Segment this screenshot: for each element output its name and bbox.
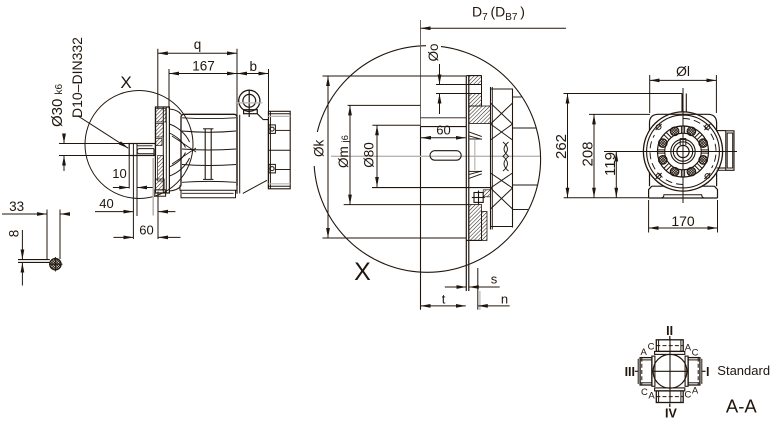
bell housing top curve (169, 109, 181, 114)
FRONT VIEW GROUP (553, 63, 737, 233)
svg-text:10: 10 (112, 166, 126, 181)
center line detail (331, 155, 540, 157)
svg-text:s: s (491, 271, 498, 286)
bell inner curves (169, 124, 189, 142)
extension lines Ok (323, 75, 467, 77)
dimension 40 (95, 211, 133, 213)
shaft groove lines (132, 144, 134, 240)
top box plate (655, 351, 685, 354)
extension bottom line (564, 197, 649, 199)
spoke lines (658, 126, 709, 177)
body side left lower (649, 173, 651, 187)
fan shroud caps (491, 88, 513, 90)
svg-text:D10–DIN332: D10–DIN332 (69, 37, 85, 118)
SIDE VIEW GROUP (49, 37, 290, 239)
eyebolt base (244, 110, 258, 114)
crosshair (652, 370, 687, 372)
flange inner circle (647, 115, 720, 188)
detail circle boundary (85, 91, 193, 199)
svg-text:C: C (648, 342, 655, 353)
top box (656, 340, 683, 352)
flange hub hatch lower (158, 156, 164, 182)
flange face extension (157, 192, 159, 240)
svg-text:t: t (442, 291, 446, 306)
body corner top-left (650, 114, 671, 130)
eyebolt (239, 90, 260, 111)
body bottom stubs (652, 185, 664, 187)
bolt pitch arcs (683, 118, 716, 168)
centerline horizontal (604, 151, 737, 153)
bell cross lines (172, 136, 196, 152)
key slab lines (18, 259, 50, 261)
grub screw (474, 193, 483, 203)
dimension O30 arrows (63, 134, 65, 144)
coupling ring outer (658, 126, 709, 177)
extension lines O30 (59, 143, 129, 145)
svg-text:8: 8 (7, 230, 22, 238)
svg-text:X: X (120, 73, 131, 92)
svg-text:170: 170 (671, 213, 695, 229)
fan blades zigzag top (491, 103, 513, 124)
coupling ring inner (665, 133, 702, 170)
bore keyway slot (680, 139, 686, 145)
svg-text:60: 60 (139, 223, 153, 238)
flange holes (656, 124, 711, 179)
centerline vertical (682, 88, 684, 203)
svg-text:I: I (706, 365, 709, 379)
svg-text:Standard: Standard (717, 363, 770, 378)
right foot (714, 186, 717, 198)
dimension q (158, 52, 197, 54)
extension line q left (157, 49, 159, 109)
body corner top-right (696, 114, 717, 130)
flange top cap (466, 75, 481, 77)
leader D10 (78, 116, 128, 148)
flange plate inner lines (162, 107, 164, 193)
hub circles (671, 139, 695, 163)
svg-text:60: 60 (436, 122, 450, 137)
svg-text:A: A (648, 391, 655, 402)
flange mid wedge bottom (469, 174, 482, 179)
extension line 167 left (168, 69, 170, 109)
svg-text:Øl: Øl (676, 63, 690, 79)
flange hatch top (469, 76, 482, 85)
rear housing top (257, 114, 268, 120)
extension lines Om (348, 104, 421, 106)
body top middle segment (670, 113, 695, 115)
dimension 167 (169, 73, 203, 75)
svg-text:IV: IV (665, 407, 677, 421)
keyway slot (430, 151, 461, 161)
extension line q/167 right (236, 49, 238, 115)
detail circle boundary (314, 46, 541, 273)
left box plate (652, 356, 655, 386)
body mid rib (204, 129, 206, 180)
svg-text:167: 167 (192, 59, 215, 74)
svg-text:n: n (501, 291, 508, 306)
svg-text:X: X (354, 258, 371, 286)
fan shroud ribs right (513, 96, 522, 98)
left box (640, 358, 652, 385)
bore bottom line (372, 187, 491, 189)
bottom box plate (655, 388, 685, 391)
fan shroud front (490, 87, 492, 230)
svg-text:III: III (625, 365, 635, 379)
svg-text:Øo: Øo (426, 43, 441, 61)
flange step line (421, 117, 467, 119)
DETAIL X VIEW GROUP (312, 4, 567, 311)
right box (688, 358, 700, 385)
svg-text:40: 40 (99, 196, 113, 211)
extension 262 top (564, 93, 683, 95)
white gap for Ok text (313, 132, 327, 166)
shaft section circle hatched (50, 259, 61, 270)
rear housing bottom (243, 180, 267, 193)
white gap for Oo text (426, 41, 441, 65)
dimension 10 (113, 187, 129, 189)
terminal box side (268, 111, 290, 189)
flange foot (155, 190, 166, 196)
AC labels (641, 342, 699, 402)
extension 208 top (589, 113, 650, 115)
svg-text:33: 33 (9, 199, 24, 214)
phantom line flange (152, 158, 154, 216)
flange outer circle (643, 112, 722, 191)
shaft end extension (128, 156, 130, 189)
body lower band (180, 186, 237, 198)
dimension 60 (113, 236, 133, 238)
KEY DETAIL GROUP (2, 199, 70, 286)
foot notches (661, 195, 705, 198)
extension O80 top (372, 124, 420, 126)
body shell lines (182, 117, 236, 120)
output shaft (129, 144, 155, 156)
motor body outline (181, 114, 237, 186)
bell housing bottom curve (169, 186, 181, 191)
body side right lower (716, 173, 718, 187)
eyebolt stub (681, 94, 683, 113)
motor rear face (236, 114, 238, 194)
center circle (653, 354, 687, 388)
svg-text:C: C (684, 390, 691, 401)
svg-text:II: II (666, 324, 673, 338)
terminal box right (717, 130, 726, 132)
base line (649, 197, 718, 199)
terminal box screws (269, 125, 276, 133)
svg-text:A: A (692, 386, 699, 397)
svg-text:A: A (641, 347, 648, 358)
left foot (649, 186, 652, 198)
flange hatch bottom (469, 205, 482, 241)
spigot phantom line (474, 140, 476, 170)
section centerlines (54, 257, 56, 272)
flange bottom cap (466, 239, 481, 241)
bolt circles (659, 127, 708, 176)
flange column outline (155, 107, 169, 193)
flange face lines (465, 76, 467, 291)
svg-text:A-A: A-A (726, 396, 758, 417)
fan shroud rear (512, 89, 514, 228)
fan blades zigzag bottom (491, 188, 513, 209)
bore Oo lines (436, 84, 482, 86)
rear housing rear edge (267, 120, 269, 189)
svg-text:b: b (250, 59, 258, 74)
SCHEMATIC GROUP (625, 324, 770, 421)
flange mid wedge top (469, 132, 482, 137)
rotor curls (503, 142, 508, 171)
shaft keyway slot (137, 145, 153, 147)
dimension b (237, 73, 252, 75)
svg-text:Øk: Øk (312, 139, 327, 157)
extension lines 33 (46, 210, 48, 260)
fan front second line (491, 87, 493, 230)
right box plate (685, 356, 688, 386)
extension line n (477, 268, 479, 310)
flange hatch top (156, 109, 166, 123)
svg-text:q: q (194, 37, 202, 52)
bore top line (421, 126, 467, 128)
svg-text:C: C (641, 387, 648, 398)
extension line b right (268, 69, 270, 120)
svg-text:Ø80: Ø80 (362, 142, 377, 168)
bottom box (656, 391, 683, 403)
svg-text:C: C (692, 347, 699, 358)
section line vertical (420, 20, 422, 127)
